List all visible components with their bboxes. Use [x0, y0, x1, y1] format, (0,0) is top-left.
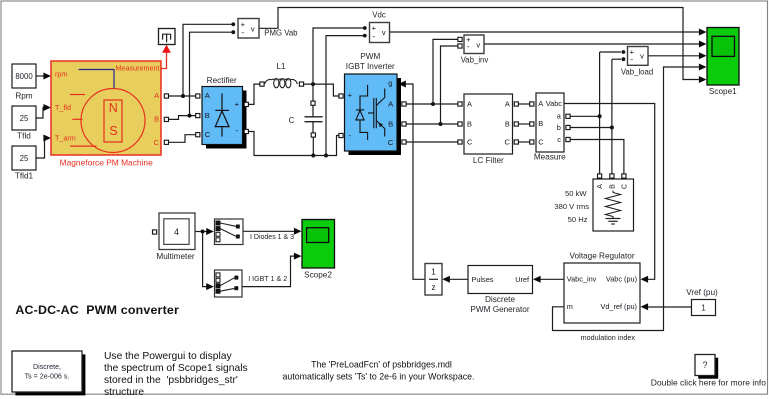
svg-text:Multimeter: Multimeter — [156, 252, 194, 261]
svg-text:-: - — [348, 131, 351, 140]
svg-text:the spectrum of Scope1 signals: the spectrum of Scope1 signals — [104, 363, 248, 374]
svg-text:stored in the 'psbbridges_str: stored in the 'psbbridges_str' — [104, 375, 238, 386]
svg-text:v: v — [251, 24, 255, 33]
svg-text:v: v — [476, 40, 480, 49]
svg-text:B: B — [467, 120, 472, 129]
svg-text:L1: L1 — [276, 62, 286, 71]
svg-text:380 V rms: 380 V rms — [554, 202, 589, 211]
svg-text:A: A — [467, 100, 472, 109]
svg-text:I IGBT 1 & 2: I IGBT 1 & 2 — [248, 275, 287, 283]
svg-text:IGBT Inverter: IGBT Inverter — [346, 62, 395, 71]
svg-text:PWM: PWM — [360, 52, 380, 61]
svg-text:Vdc: Vdc — [372, 11, 386, 20]
svg-text:B: B — [538, 119, 543, 128]
svg-text:Vab_inv: Vab_inv — [461, 56, 489, 65]
svg-text:automatically sets 'Ts' to 2e-: automatically sets 'Ts' to 2e-6 in your … — [283, 371, 475, 381]
svg-text:Vd_ref (pu): Vd_ref (pu) — [600, 302, 637, 311]
svg-text:Discrete,: Discrete, — [33, 363, 61, 371]
svg-text:The 'PreLoadFcn' of psbbridges: The 'PreLoadFcn' of psbbridges.mdl — [311, 359, 452, 369]
svg-text:Tfld: Tfld — [17, 132, 31, 141]
svg-text:S: S — [109, 124, 117, 138]
svg-text:+: + — [235, 100, 239, 109]
svg-text:Vab_load: Vab_load — [621, 68, 653, 77]
svg-text:50 kW: 50 kW — [565, 189, 587, 198]
svg-text:Rpm: Rpm — [15, 92, 32, 101]
svg-text:Rectifier: Rectifier — [207, 76, 237, 85]
svg-text:C: C — [289, 116, 295, 125]
svg-text:Scope2: Scope2 — [304, 270, 332, 279]
svg-text:structure: structure — [104, 387, 144, 398]
svg-text:T_arm: T_arm — [55, 134, 76, 143]
svg-text:B: B — [154, 114, 159, 123]
svg-text:B: B — [505, 120, 510, 129]
svg-text:Vabc_inv: Vabc_inv — [567, 275, 597, 284]
svg-text:8000: 8000 — [15, 72, 33, 81]
svg-text:LC Filter: LC Filter — [473, 156, 504, 165]
svg-text:1: 1 — [701, 303, 705, 312]
svg-text:m: m — [567, 302, 573, 311]
svg-text:Vabc: Vabc — [546, 99, 563, 108]
svg-text:-: - — [235, 126, 238, 135]
svg-text:4: 4 — [174, 227, 179, 237]
svg-text:T_fld: T_fld — [55, 103, 71, 112]
svg-text:-: - — [467, 41, 470, 51]
svg-text:Vabc (pu): Vabc (pu) — [606, 275, 637, 284]
svg-text:25: 25 — [20, 154, 29, 163]
svg-text:B: B — [205, 111, 210, 120]
svg-text:B: B — [607, 184, 616, 189]
svg-text:c: c — [557, 135, 561, 144]
svg-text:N: N — [109, 101, 118, 115]
svg-text:1: 1 — [431, 267, 436, 276]
svg-text:C: C — [619, 184, 628, 189]
svg-text:-: - — [630, 54, 633, 64]
svg-text:C: C — [205, 130, 211, 139]
svg-text:-: - — [372, 31, 375, 41]
svg-text:50 Hz: 50 Hz — [568, 215, 588, 224]
svg-text:v: v — [382, 28, 386, 37]
svg-text:A: A — [538, 99, 543, 108]
svg-text:PWM Generator: PWM Generator — [470, 305, 529, 314]
svg-text:+: + — [348, 91, 352, 100]
svg-text:C: C — [388, 138, 394, 147]
svg-text:Discrete: Discrete — [485, 295, 515, 304]
svg-text:v: v — [640, 52, 644, 61]
svg-text:z: z — [432, 283, 436, 292]
svg-text:A: A — [595, 184, 604, 189]
svg-text:C: C — [538, 137, 544, 146]
svg-text:C: C — [154, 138, 160, 147]
svg-text:modulation index: modulation index — [581, 333, 636, 342]
svg-text:C: C — [504, 138, 510, 147]
svg-text:Uref: Uref — [515, 275, 530, 284]
svg-text:Scope1: Scope1 — [709, 87, 737, 96]
svg-text:?: ? — [702, 360, 707, 370]
svg-text:Measure: Measure — [534, 153, 566, 162]
svg-text:C: C — [467, 138, 473, 147]
svg-text:A: A — [505, 100, 510, 109]
svg-text:-: - — [241, 27, 244, 37]
svg-text:Magneforce PM Machine: Magneforce PM Machine — [60, 158, 153, 168]
svg-text:Pulses: Pulses — [472, 275, 494, 284]
svg-text:Double click here for more inf: Double click here for more info — [651, 378, 767, 388]
svg-text:rpm: rpm — [55, 69, 67, 78]
svg-text:b: b — [557, 123, 561, 132]
svg-text:Use the Powergui to display: Use the Powergui to display — [104, 351, 232, 362]
svg-text:25: 25 — [20, 114, 29, 123]
svg-text:PMG Vab: PMG Vab — [264, 29, 298, 38]
svg-text:I Diodes 1 & 3: I Diodes 1 & 3 — [250, 234, 294, 241]
svg-text:Ts = 2e-006 s.: Ts = 2e-006 s. — [25, 373, 70, 381]
svg-text:Vref (pu): Vref (pu) — [686, 288, 718, 297]
svg-text:A: A — [154, 91, 159, 100]
svg-text:Measurement: Measurement — [116, 64, 160, 73]
svg-text:g: g — [388, 79, 392, 88]
svg-text:B: B — [388, 119, 393, 128]
svg-text:Voltage Regulator: Voltage Regulator — [569, 252, 634, 261]
svg-text:AC-DC-AC PWM converter: AC-DC-AC PWM converter — [15, 303, 179, 317]
svg-text:Tfld1: Tfld1 — [15, 172, 34, 181]
